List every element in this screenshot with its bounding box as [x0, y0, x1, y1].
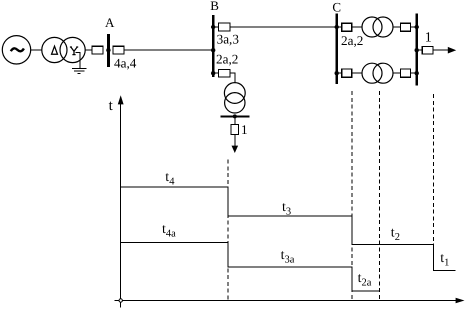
wire transformer to breaker	[85, 49, 92, 51]
node B middle	[211, 48, 215, 52]
dashed line at bus C	[351, 91, 353, 301]
breaker square 1	[422, 46, 433, 54]
breaker square C bottom left	[342, 69, 352, 77]
wire feeder out	[433, 49, 448, 51]
svg-text:2a,2: 2a,2	[341, 33, 363, 48]
transformer T2	[224, 83, 245, 113]
feeder arrow right	[448, 47, 456, 54]
wire B to C	[230, 26, 337, 28]
node C top	[335, 25, 339, 29]
time axis horizontal	[115, 300, 457, 302]
dashed line t2a end	[379, 91, 381, 301]
wire busbar to load fuse	[234, 116, 236, 124]
svg-text:4a,4: 4a,4	[114, 55, 137, 70]
wye symbol	[70, 47, 78, 55]
wire to bus D bottom	[410, 72, 416, 74]
node D top	[415, 25, 419, 29]
wire T4 to breaker	[393, 72, 401, 74]
node on bus A	[106, 48, 110, 52]
transformer T4	[362, 63, 393, 83]
wire D to breaker 1	[417, 49, 423, 51]
transformer T3	[362, 17, 393, 37]
bus C	[335, 14, 338, 84]
origin marker	[119, 299, 122, 302]
wire C to breaker top	[337, 26, 342, 28]
low-voltage busbar under T2	[221, 115, 250, 117]
breaker square 2a,2	[219, 69, 230, 77]
node C bottom	[335, 71, 339, 75]
dashed line at bus B feeder	[227, 160, 229, 301]
delta symbol	[52, 46, 58, 54]
wire A to B	[124, 49, 213, 51]
load arrow down	[232, 146, 239, 153]
svg-text:3a,3: 3a,3	[217, 31, 240, 46]
breaker square C bottom right	[401, 69, 411, 77]
ground	[72, 52, 86, 73]
svg-text:2a,2: 2a,2	[216, 51, 238, 66]
wire B to breaker 2a,2	[213, 72, 218, 74]
node B bottom	[211, 71, 215, 75]
breaker square 3a,3	[219, 23, 230, 31]
wire breaker to transformer T2	[230, 73, 235, 82]
node D middle	[415, 48, 419, 52]
breaker square C top left	[342, 23, 352, 31]
time axis horizontal arrow	[456, 298, 465, 303]
time axis vertical arrow	[118, 95, 124, 104]
wire to transformer T4	[352, 72, 363, 74]
svg-text:1: 1	[241, 122, 248, 137]
wire to transformer T3	[352, 26, 363, 28]
svg-text:A: A	[105, 15, 115, 30]
breaker square left of bus A	[92, 46, 103, 54]
generator G (AC source)	[2, 36, 30, 64]
wire generator to transformer	[31, 49, 42, 51]
wire fuse to load arrow	[234, 134, 236, 146]
bus B	[212, 15, 215, 77]
time axis vertical	[120, 102, 122, 308]
breaker square 4a,4	[113, 46, 124, 54]
node B top	[211, 25, 215, 29]
wire B to breaker 3a,3	[213, 26, 218, 28]
bus A	[107, 34, 110, 67]
dashed line at bus D feeder	[433, 94, 435, 245]
breaker square C top right	[401, 23, 411, 31]
wire T3 to breaker	[393, 26, 401, 28]
svg-text:1: 1	[425, 30, 432, 45]
staircase t4a-t3a-t2a	[121, 243, 380, 291]
wire to bus D top	[410, 26, 416, 28]
node under T2	[233, 114, 237, 118]
node D bottom	[415, 71, 419, 75]
transformer T1 (delta-wye)	[42, 37, 85, 62]
wire C to breaker bottom	[337, 72, 342, 74]
bus D (right)	[415, 14, 418, 86]
svg-text:C: C	[332, 0, 341, 14]
load fuse 1	[231, 125, 238, 135]
staircase t4-t3-t2-t1	[121, 187, 456, 271]
svg-text:B: B	[210, 0, 219, 13]
